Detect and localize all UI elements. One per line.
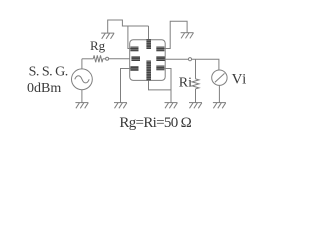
ground Ri [189, 103, 202, 109]
wire source bottom vertical [81, 90, 83, 103]
shunt resonator electrode bottom-center [146, 61, 151, 81]
resonator electrode top-right [156, 47, 164, 52]
svg-text:Rg=Ri=50 Ω: Rg=Ri=50 Ω [119, 115, 191, 131]
ceramic filter package U1 [130, 40, 166, 81]
terminal output [188, 58, 191, 61]
wire voltmeter to ground [218, 85, 220, 102]
resistor Rg [93, 55, 103, 62]
wire pin 3 stub (bottom-left) [121, 69, 131, 103]
svg-text:Rg: Rg [90, 38, 106, 53]
terminal input [106, 57, 109, 60]
shunt resonator electrode top-center [146, 39, 151, 49]
wire Rg to terminal [103, 58, 106, 60]
svg-text:Vi: Vi [232, 72, 247, 88]
wire Ri to ground [195, 89, 197, 103]
signal generator S.S.G. [72, 69, 93, 90]
ground source [75, 103, 88, 109]
wire terminal to filter pin 1 [109, 58, 130, 60]
ground voltmeter [213, 103, 226, 109]
resonator electrode top-left [130, 47, 138, 52]
svg-text:S. S. G.: S. S. G. [29, 65, 68, 80]
ground bottom-right [165, 103, 178, 109]
wire pin 4 stub (top-right) [165, 21, 188, 48]
ground bottom-left [114, 103, 127, 109]
wire pin 6 to output terminal [165, 58, 189, 60]
svg-text:0dBm: 0dBm [27, 81, 61, 96]
svg-text:Ri: Ri [179, 76, 192, 91]
ground top-left [101, 33, 114, 39]
resonator electrode mid-right [156, 56, 165, 61]
wire pin 5 stub (bottom-right) [165, 69, 172, 103]
wire pin 2 stub (top-left) [128, 26, 131, 49]
wire input horizontal [82, 58, 93, 60]
wire shunt resonator bottom lead [149, 80, 172, 90]
resonator electrode mid-left [131, 56, 140, 61]
wire node junction down to Ri [195, 59, 197, 79]
resonator electrode bottom-left [130, 66, 138, 71]
resistor Ri [192, 79, 199, 89]
wire shunt resonator top lead [148, 26, 150, 40]
resonator electrode bottom-right [156, 66, 164, 71]
voltmeter Vi [212, 70, 227, 85]
ground top-right [181, 33, 194, 39]
wire output to voltmeter corner [192, 59, 219, 70]
wire source top vertical [81, 59, 83, 69]
wire top-left ground run [108, 20, 149, 33]
